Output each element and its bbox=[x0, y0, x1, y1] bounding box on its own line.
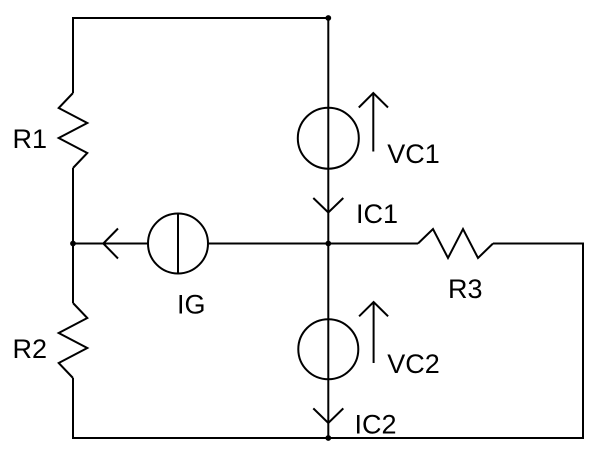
current arrow for VC2 (pointing up) bbox=[373, 302, 375, 363]
wire left lower (R2 to bottom-left corner) bbox=[72, 378, 74, 438]
current source IG (circle with vertical bar) bbox=[148, 214, 208, 274]
node A (top junction) bbox=[325, 15, 331, 21]
resistor R3 bbox=[418, 229, 493, 258]
wire right (R3 side down to bottom-right corner) bbox=[582, 244, 584, 440]
svg-text:IC2: IC2 bbox=[355, 410, 397, 440]
arrowhead on IG wire (pointing left) bbox=[103, 229, 118, 259]
wire middle-center (IG to R3 through center node) bbox=[208, 243, 418, 245]
resistor R1 bbox=[59, 93, 88, 168]
wire middle-left (left node to IG) with current arrow bbox=[73, 243, 148, 245]
wire middle-right (R3 to right corner) bbox=[493, 243, 584, 245]
source VC2 (circle) bbox=[298, 319, 358, 379]
wire top (top-left corner to node A) bbox=[73, 17, 328, 19]
svg-text:R2: R2 bbox=[13, 334, 48, 364]
svg-text:R3: R3 bbox=[448, 274, 483, 304]
wire left middle (R1 to R2 through left node) bbox=[72, 168, 74, 303]
svg-text:R1: R1 bbox=[13, 124, 48, 154]
resistor R2 bbox=[59, 303, 88, 378]
svg-text:VC1: VC1 bbox=[387, 139, 440, 169]
node D (center junction) bbox=[325, 241, 331, 247]
node C (bottom junction) bbox=[325, 435, 331, 441]
wire middle vertical (node A to node C, through VC1 and VC2) bbox=[327, 18, 329, 438]
current arrow for VC1 (pointing up) bbox=[372, 93, 374, 152]
svg-text:VC2: VC2 bbox=[387, 349, 440, 379]
wire bottom (bottom-left corner to bottom-right corner) bbox=[72, 437, 583, 439]
svg-text:IG: IG bbox=[177, 289, 206, 319]
arrowhead IC2 (pointing down on middle wire) bbox=[313, 408, 343, 423]
svg-text:IC1: IC1 bbox=[356, 199, 398, 229]
wire left upper (top-left corner down to R1) bbox=[72, 17, 74, 93]
node B (left junction) bbox=[70, 241, 76, 247]
source VC1 (circle) bbox=[298, 108, 359, 169]
arrowhead IC1 (pointing down on middle wire) bbox=[313, 198, 343, 213]
